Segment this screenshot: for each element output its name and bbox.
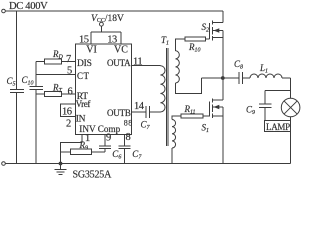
wire C9 tee	[265, 90, 291, 92]
capacitor C10	[30, 86, 43, 88]
transistor S1 drain lead	[213, 99, 223, 101]
wire Vcc stub	[100, 26, 102, 32]
transistor S2 body arrow lead	[213, 30, 223, 32]
capacitor C6	[99, 145, 111, 147]
svg-text:7: 7	[66, 54, 71, 65]
lamp box	[265, 121, 291, 132]
svg-text:LAMP: LAMP	[266, 122, 290, 132]
svg-text:IN: IN	[76, 114, 86, 124]
winding secondary bottom T1	[172, 120, 176, 149]
svg-text:2: 2	[66, 119, 71, 130]
svg-text:CT: CT	[77, 71, 90, 81]
transistor S1 source lead	[213, 115, 223, 117]
wire pin1	[61, 135, 83, 164]
wire pin9 stub	[104, 135, 106, 147]
capacitor C7 softstart	[118, 145, 130, 147]
winding secondary top T1	[176, 51, 180, 83]
svg-text:8: 8	[126, 132, 131, 143]
resistor RT	[36, 93, 44, 95]
ground	[60, 164, 62, 170]
svg-text:Vref: Vref	[76, 99, 91, 109]
node junction dot ground	[59, 162, 63, 166]
node ground terminal bottom-left	[2, 162, 6, 166]
wire pin11 OUTA	[132, 65, 161, 67]
lamp circle	[281, 98, 300, 117]
wire lamp box to rail	[290, 132, 292, 164]
svg-text:OUTA: OUTA	[107, 58, 131, 68]
node DC400V terminal top-left	[2, 9, 6, 13]
resistor RD	[36, 60, 44, 62]
node Vcc terminal	[100, 22, 104, 26]
wire secondary top lead to R10	[175, 39, 185, 51]
transistor S1 body arrow lead	[213, 106, 223, 108]
wire pin8 stub	[123, 135, 125, 147]
wire top rail	[6, 10, 223, 12]
wire pin13 stub	[120, 32, 122, 44]
svg-text:DC 400V: DC 400V	[9, 1, 48, 12]
svg-text:9: 9	[106, 132, 111, 143]
svg-text:88: 88	[124, 119, 133, 128]
svg-text:1: 1	[85, 133, 90, 144]
transistor S2 drain lead	[213, 21, 223, 23]
wire S1 drain	[222, 78, 224, 100]
svg-text:11: 11	[133, 56, 142, 67]
svg-text:14: 14	[134, 101, 145, 112]
inductor L1	[250, 74, 282, 78]
svg-text:VC: VC	[114, 45, 128, 56]
lamp leads	[290, 117, 292, 121]
node junction dot half-bridge	[221, 76, 225, 80]
wire CT column	[35, 61, 37, 86]
wire Vcc bar	[91, 31, 121, 33]
capacitor C5	[16, 11, 18, 90]
wire bottom rail	[6, 163, 291, 165]
transistor S2 channel dashes	[212, 21, 214, 25]
wire half-bridge node row	[201, 77, 239, 79]
capacitor C7 series	[145, 106, 147, 118]
wire secondary bottom top lead	[172, 116, 174, 120]
wire secondary bottom to rail	[171, 148, 173, 164]
wire pin5 CT	[36, 73, 75, 75]
wire pin16 to pin2 loop	[60, 104, 75, 116]
capacitor C8	[238, 72, 240, 84]
wire S1 source to rail	[222, 107, 224, 164]
wire S2 source to node	[222, 31, 224, 79]
wire L1 to lamp column	[282, 77, 291, 79]
transistor S1 channel dashes	[212, 99, 214, 103]
transistor S2 gate bar	[209, 23, 211, 39]
wire pin15 stub	[90, 32, 92, 44]
winding primary T1	[160, 66, 165, 112]
resistor R9	[61, 151, 71, 153]
transformer T1 core	[165, 48, 167, 146]
resistor R11	[174, 115, 181, 117]
op-amp U1 SG3525A IC body	[76, 44, 132, 134]
capacitor C9	[259, 103, 271, 105]
svg-text:OUTB: OUTB	[107, 108, 131, 118]
svg-text:VCC/18V: VCC/18V	[91, 14, 124, 24]
transistor S1 gate bar	[209, 102, 211, 117]
svg-text:SG3525A: SG3525A	[73, 169, 113, 180]
wire pin14 OUTB	[132, 111, 147, 113]
transistor S2 source lead	[213, 37, 223, 39]
svg-text:16: 16	[62, 106, 72, 117]
wire secondary top return	[176, 78, 202, 94]
wire top rail drop to S2 drain	[222, 11, 224, 22]
svg-text:6: 6	[68, 86, 73, 97]
svg-text:DIS: DIS	[77, 59, 92, 69]
resistor R10	[185, 37, 205, 41]
svg-text:5: 5	[67, 66, 72, 77]
svg-text:VI: VI	[86, 45, 97, 56]
